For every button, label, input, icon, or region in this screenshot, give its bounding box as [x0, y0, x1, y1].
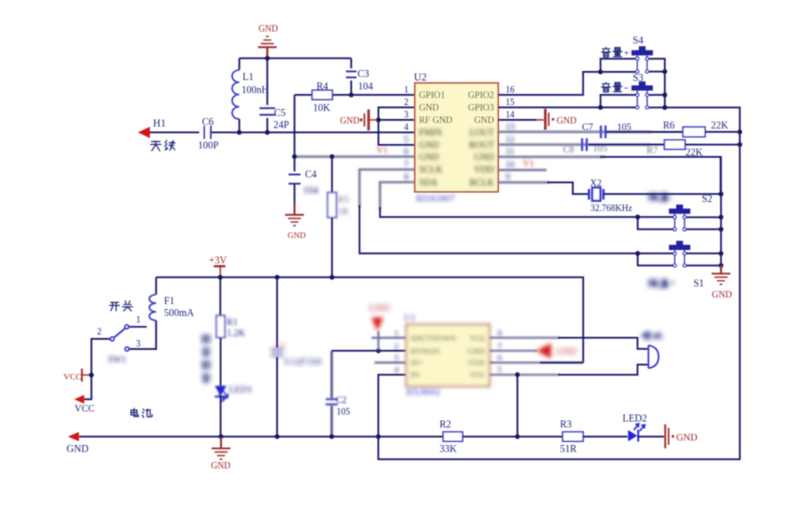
svg-text:2: 2 — [97, 327, 102, 337]
node junction S3 jog on pin15 row — [598, 105, 603, 110]
svg-text:8: 8 — [498, 328, 502, 338]
wire pin16 GPIO2 to S4 — [498, 72, 601, 95]
svg-text:1.2K: 1.2K — [227, 329, 246, 339]
svg-text:GPIO1: GPIO1 — [419, 90, 445, 100]
svg-text:10K: 10K — [313, 103, 331, 114]
wire pin15 GPIO3 row to S3 — [498, 106, 636, 108]
wire S2 right bottom — [686, 228, 721, 230]
LED LED1 — [220, 338, 222, 387]
node junction row2/gnd arrow — [376, 348, 381, 353]
wire L1 top stub — [238, 58, 240, 70]
svg-text:VDD: VDD — [468, 359, 486, 368]
label RDA5807 under U2 — [416, 195, 455, 205]
wire U1 VO1 row to speaker — [490, 374, 560, 376]
speaker LS — [647, 345, 649, 368]
svg-text:1: 1 — [404, 85, 409, 95]
wire +3V rail — [156, 277, 583, 362]
svg-text:6: 6 — [404, 146, 409, 156]
wire antenna row — [150, 131, 416, 133]
resistor R1 — [219, 277, 221, 315]
capacitor C3 — [350, 58, 352, 68]
node junction antenna/C5 — [265, 130, 270, 135]
svg-text:SDA: SDA — [419, 177, 438, 187]
label 开关 switch — [110, 302, 120, 310]
wire R7 to right rail — [685, 144, 740, 146]
svg-text:105: 105 — [593, 145, 608, 155]
wire bottom GND rail — [79, 436, 443, 438]
svg-text:GND: GND — [676, 432, 697, 443]
connector VCC red arrow — [74, 395, 84, 404]
wire R4 left vertical to V1 row — [294, 95, 296, 157]
wire R5 to +3V rail — [331, 218, 333, 278]
wire V1 row pin6 — [295, 156, 416, 158]
svg-text:5: 5 — [498, 365, 502, 375]
wire SDA pin8 bracket — [380, 182, 415, 210]
svg-text:GND: GND — [67, 444, 89, 455]
node junction R1/LED1 bottom — [219, 434, 224, 439]
svg-text:R7: R7 — [647, 146, 659, 157]
svg-text:C8: C8 — [563, 145, 574, 155]
svg-text:+3V: +3V — [209, 256, 228, 267]
svg-text:LOUT: LOUT — [470, 128, 495, 138]
node junction crystal on S-rail — [719, 192, 724, 197]
svg-text:104: 104 — [303, 186, 318, 197]
resistor R6 — [683, 127, 705, 137]
node junction C1 top — [275, 275, 280, 280]
svg-text:2: 2 — [404, 97, 409, 107]
capacitor C5 — [266, 58, 268, 105]
svg-text:6: 6 — [498, 353, 502, 363]
capacitor C2 — [326, 351, 347, 437]
net label V1 left — [377, 145, 388, 155]
svg-text:VO2: VO2 — [469, 334, 485, 343]
wire C8 to R7 — [588, 144, 664, 146]
svg-text:R1: R1 — [227, 318, 238, 328]
node junction VO1 branch — [515, 372, 520, 377]
svg-text:IN+: IN+ — [411, 359, 424, 368]
svg-text:13: 13 — [506, 122, 516, 132]
wire F1 to switch pin3 — [129, 321, 156, 350]
svg-text:32.768KHz: 32.768KHz — [591, 203, 633, 213]
svg-text:R6: R6 — [663, 121, 675, 132]
svg-text:S2: S2 — [702, 194, 713, 205]
power symbol GND above U1 (blurred) — [369, 304, 390, 331]
wire S-rail vertical — [720, 157, 722, 266]
svg-text:U2: U2 — [414, 73, 427, 84]
svg-text:16: 16 — [506, 85, 516, 95]
wire VO1 branch down to R2 node — [516, 375, 518, 437]
svg-text:GPIO2: GPIO2 — [468, 90, 494, 100]
node junction C1 bottom — [275, 434, 280, 439]
capacitor C6 — [200, 126, 212, 139]
svg-text:S4: S4 — [633, 36, 644, 47]
svg-text:SHUTDOWN: SHUTDOWN — [411, 334, 457, 343]
pushbutton S2 — [669, 209, 690, 214]
label vertical text (blurred) — [201, 335, 210, 383]
capacitor C8 — [581, 138, 583, 151]
svg-text:-: - — [624, 83, 628, 94]
svg-text:105: 105 — [337, 407, 351, 417]
svg-text:10: 10 — [506, 159, 516, 169]
connector GND red arrow bottom left — [68, 432, 79, 441]
ground earth below C4 — [285, 214, 304, 216]
label 频道+ channel plus (blurred) — [648, 279, 675, 290]
svg-text:GND: GND — [259, 24, 279, 34]
node junction S4 right bottom — [649, 71, 665, 73]
ground earth battery rail — [220, 438, 222, 449]
node junction S4 jog — [598, 70, 603, 75]
svg-text:R2: R2 — [440, 420, 452, 431]
svg-text:VDD: VDD — [474, 165, 494, 175]
svg-text:-: - — [670, 193, 673, 204]
svg-text:F1: F1 — [164, 296, 175, 307]
wire S4 right jog — [649, 59, 665, 108]
capacitor C7 — [600, 126, 602, 139]
svg-text:+: + — [670, 279, 676, 290]
svg-text:R4: R4 — [317, 81, 329, 92]
antenna connector H1 red arrow — [138, 127, 150, 138]
svg-text:GND: GND — [288, 230, 306, 240]
svg-text:C6: C6 — [202, 117, 214, 128]
svg-text:500mA: 500mA — [164, 308, 195, 319]
svg-text:V1: V1 — [377, 145, 388, 155]
resistor R3 — [563, 432, 584, 441]
svg-text:12: 12 — [506, 135, 515, 145]
svg-text:R3: R3 — [560, 420, 572, 431]
wire pin9 RCLK to crystal — [498, 181, 550, 183]
wire U1 VDD row to +3V — [490, 362, 584, 364]
svg-text:C1: C1 — [276, 340, 286, 350]
svg-text:3: 3 — [404, 110, 409, 120]
svg-text:VCC: VCC — [64, 371, 82, 381]
resistor R2 — [443, 432, 463, 441]
node junction antenna/L1 — [237, 130, 242, 135]
capacitor C4 — [294, 157, 296, 172]
wire S1 left jog — [635, 251, 640, 256]
wire S3 right bottom to GND loop — [649, 107, 665, 109]
svg-text:BYPASS: BYPASS — [411, 347, 441, 356]
wire U1 row1 left stub — [372, 337, 407, 339]
wire pin3 row — [378, 119, 415, 121]
svg-text:H1: H1 — [153, 119, 166, 130]
wire switch pin2 to VCC — [91, 339, 110, 375]
node junction R2/R3 row — [515, 434, 520, 439]
wire U1 VO2 row to speaker — [490, 337, 560, 339]
svg-text:3: 3 — [136, 339, 141, 349]
pushbutton S1 — [669, 245, 690, 250]
wire pin10 VDD stub — [498, 169, 547, 171]
net label V1 right — [523, 158, 534, 168]
svg-text:IN-: IN- — [411, 371, 422, 380]
svg-text:9: 9 — [506, 172, 511, 182]
svg-text:+: + — [624, 49, 629, 59]
wire U1 row2 from C2 corner — [332, 350, 407, 352]
svg-text:100P: 100P — [198, 141, 219, 152]
power symbol GND top earth — [258, 46, 277, 48]
svg-text:X2: X2 — [590, 179, 602, 189]
node junction V1/R5 — [330, 154, 335, 159]
svg-text:C3: C3 — [358, 69, 370, 80]
svg-text:7: 7 — [404, 159, 409, 169]
wire S2 left jog — [635, 215, 640, 220]
node junction R7 right on loop — [737, 142, 742, 147]
svg-text:8: 8 — [404, 172, 409, 182]
svg-text:SW1: SW1 — [108, 355, 126, 365]
wire top rail — [239, 57, 351, 59]
resistor R5 — [331, 157, 333, 193]
svg-text:33K: 33K — [440, 444, 458, 455]
svg-text:GND: GND — [419, 103, 439, 113]
wire S3 left top jog — [601, 95, 636, 108]
wire R3 to LED2 — [583, 436, 627, 438]
svg-text:LED2: LED2 — [623, 414, 647, 425]
svg-text:2: 2 — [394, 341, 398, 351]
wire U1 row4 left to bottom — [378, 375, 406, 437]
svg-text:100nH: 100nH — [242, 85, 269, 96]
svg-text:GND: GND — [474, 152, 494, 162]
node junction V1/C4 — [292, 154, 297, 159]
fuse F1 500mA — [155, 277, 157, 294]
label 音量- volume minus — [602, 83, 611, 93]
wire R6 to right rail — [705, 131, 740, 133]
svg-text:GPIO3: GPIO3 — [468, 103, 494, 113]
svg-text:4: 4 — [404, 122, 409, 132]
svg-text:1: 1 — [136, 314, 141, 324]
node junction C3 / R4 / GPIO1 — [349, 93, 354, 98]
resistor R4 — [295, 94, 313, 96]
node junction pin3 GND — [376, 118, 381, 123]
svg-text:LED1: LED1 — [229, 386, 252, 396]
svg-text:GND: GND — [211, 461, 231, 471]
wire S1 right top — [686, 252, 721, 254]
wire crystal to S-rail — [604, 193, 721, 195]
node junction row4/bottom rail — [376, 434, 381, 439]
label 音量+ volume plus — [602, 48, 611, 58]
resistor R7 — [664, 140, 685, 149]
label 天线 antenna — [151, 141, 161, 150]
wire S2 right top — [686, 216, 721, 218]
svg-text:L1: L1 — [243, 72, 254, 83]
node junction R6 right on loop — [737, 130, 742, 135]
crystal X2 32.768KHz — [588, 189, 590, 200]
svg-text:1R: 1R — [338, 208, 350, 218]
wire pin1 row to U2 — [351, 94, 415, 96]
svg-text:C5: C5 — [274, 108, 286, 119]
wire C7 to R6 — [606, 131, 683, 133]
svg-text:SCLK: SCLK — [419, 165, 443, 175]
svg-text:GND: GND — [340, 115, 360, 125]
label 喇叭 speaker (blurred) — [643, 331, 662, 340]
svg-text:51R: 51R — [560, 444, 577, 455]
wire pin12 ROUT row / C8 — [498, 144, 650, 146]
node junction R5 bottom — [330, 275, 335, 280]
svg-text:C4: C4 — [305, 170, 317, 181]
node junction C2 bottom — [329, 434, 334, 439]
svg-text:104: 104 — [358, 82, 373, 93]
svg-text:V1: V1 — [523, 158, 534, 168]
node junction +3V stem — [218, 275, 223, 280]
svg-text:GND: GND — [556, 348, 577, 358]
svg-text:1: 1 — [394, 328, 398, 338]
svg-text:5: 5 — [404, 135, 409, 145]
wire S3 right top — [649, 94, 665, 96]
svg-text:3: 3 — [394, 353, 398, 363]
svg-text:RCLK: RCLK — [469, 177, 494, 187]
svg-text:VCC: VCC — [75, 403, 95, 414]
wire pin13 LOUT row / C7 — [498, 131, 652, 133]
svg-text:GND: GND — [557, 116, 577, 126]
IC U1 amplifier body (blurred) — [394, 314, 502, 397]
svg-text:GND: GND — [419, 152, 439, 162]
svg-text:7: 7 — [498, 341, 502, 351]
wire SCLK pin7 bracket — [360, 170, 416, 209]
svg-text:GND: GND — [369, 304, 390, 314]
svg-text:11: 11 — [506, 146, 515, 156]
wire LED2 to GND — [638, 436, 664, 438]
wire L1 bottom stub — [238, 119, 240, 132]
power symbol GND right of U1 (blurred) — [537, 343, 577, 358]
svg-text:VO1: VO1 — [469, 371, 485, 380]
wire pin11 GND to S-rail — [498, 156, 605, 158]
power symbol GND at pin14 — [498, 119, 537, 121]
svg-text:14: 14 — [506, 110, 516, 120]
node junction VCC — [89, 373, 94, 378]
ground earth below S-rail — [720, 266, 722, 274]
inductor L1 — [232, 70, 239, 119]
svg-text:HXJ8002: HXJ8002 — [406, 387, 441, 397]
power symbol GND right of LED2 — [664, 424, 666, 448]
svg-text:22K: 22K — [711, 121, 729, 132]
svg-text:ROUT: ROUT — [469, 140, 494, 150]
svg-text:0.1uF/104: 0.1uF/104 — [285, 357, 322, 367]
wire U1 row3 left stub — [375, 362, 407, 364]
wire S4 left top jog — [601, 59, 636, 72]
svg-text:FMIN: FMIN — [419, 128, 442, 138]
svg-text:GND: GND — [474, 115, 494, 125]
svg-text:R5: R5 — [338, 196, 349, 206]
svg-text:GND: GND — [419, 140, 439, 150]
IC U2 RDA5807 body — [415, 83, 498, 192]
svg-text:GND: GND — [712, 290, 732, 300]
label 电池 battery — [131, 408, 138, 416]
label 频道- channel minus (blurred) — [648, 193, 672, 204]
wire pin2 row — [378, 107, 415, 144]
wire S1 right bottom — [686, 265, 721, 267]
svg-text:RF GND: RF GND — [419, 115, 453, 125]
svg-text:C2: C2 — [336, 395, 347, 405]
svg-text:S1: S1 — [694, 279, 705, 290]
wire VCC arrow branch — [84, 375, 91, 399]
capacitor C1 (blurred) — [276, 277, 278, 347]
wire R2 to R3 — [463, 436, 563, 438]
svg-text:24P: 24P — [274, 120, 290, 131]
svg-text:RDA5807: RDA5807 — [416, 195, 455, 205]
wire U1 GND row right — [490, 350, 538, 352]
svg-text:C7: C7 — [582, 123, 593, 133]
svg-text:U1: U1 — [404, 314, 416, 324]
svg-text:GND: GND — [468, 347, 486, 356]
node junction top rail / C5 — [265, 56, 270, 61]
svg-text:15: 15 — [506, 97, 516, 107]
